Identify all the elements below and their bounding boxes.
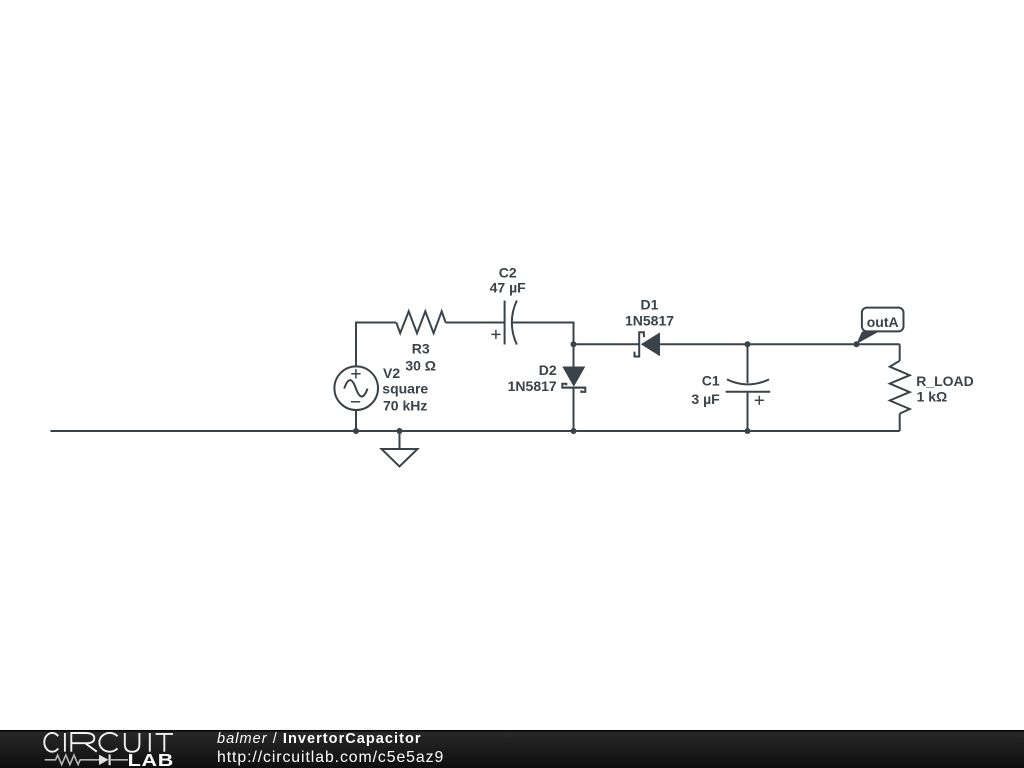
- node flag outA: [856, 308, 903, 345]
- junction: node outA attach point: [854, 341, 860, 347]
- svg-text:square: square: [382, 380, 428, 396]
- capacitor C1 plates: [726, 379, 771, 391]
- capacitor C2 plates: [505, 301, 517, 345]
- C2 plus sign: [491, 330, 500, 339]
- voltage source V2 circle: [334, 366, 378, 410]
- svg-text:1 kΩ: 1 kΩ: [917, 389, 948, 405]
- V2 minus sign: [351, 401, 360, 403]
- svg-text:47 µF: 47 µF: [490, 280, 527, 296]
- junction: C1 bottom on rail: [745, 428, 751, 434]
- footer title line: [217, 731, 422, 747]
- C1 plus sign: [755, 396, 764, 405]
- V2 sine wave: [344, 380, 367, 396]
- footer bar: [0, 730, 1024, 768]
- junction: D2 to ground rail: [571, 428, 577, 434]
- wire: R_LOAD top lead: [899, 344, 901, 361]
- wire: R_LOAD bottom lead: [899, 414, 901, 431]
- svg-text:V2: V2: [383, 365, 400, 381]
- svg-text:R3: R3: [412, 341, 430, 357]
- CircuitLab logo: [0, 723, 200, 768]
- ground symbol: [382, 431, 418, 467]
- svg-text:30 Ω: 30 Ω: [405, 357, 436, 373]
- svg-text:3 µF: 3 µF: [691, 391, 720, 407]
- wire: bottom ground rail: [51, 430, 900, 432]
- wire: D2 branch down from mid node: [573, 344, 575, 366]
- svg-text:outA: outA: [867, 314, 899, 330]
- wire: V2 bottom lead: [355, 410, 357, 431]
- junction: V2 to ground rail: [353, 428, 359, 434]
- wire: D1 to outA corner: [660, 343, 900, 345]
- diode D1 1N5817 (schottky, pointing left): [635, 332, 661, 356]
- V2 plus sign: [351, 369, 360, 378]
- wire: C1 top lead: [747, 344, 749, 383]
- footer url line: [217, 749, 444, 767]
- svg-text:C1: C1: [702, 372, 720, 388]
- wire: mid node to D1: [574, 343, 640, 345]
- resistor R_LOAD: [890, 361, 910, 414]
- svg-text:LAB: LAB: [128, 751, 174, 768]
- wire: R3 to C2: [446, 322, 505, 324]
- junction: C2/D1/D2 node: [571, 341, 577, 347]
- svg-text:1N5817: 1N5817: [508, 378, 557, 394]
- junction: ground stub on rail: [397, 428, 403, 434]
- svg-text:D1: D1: [641, 296, 659, 312]
- wire: D2 to ground rail: [573, 388, 575, 431]
- junction: C1 top node: [745, 341, 751, 347]
- svg-text:70 kHz: 70 kHz: [383, 397, 427, 413]
- wire: V2 top lead to R3: [356, 323, 396, 368]
- resistor R3: [396, 311, 445, 333]
- svg-text:C2: C2: [499, 264, 517, 280]
- svg-text:D2: D2: [539, 362, 557, 378]
- diode D2 1N5817 (schottky, pointing down): [562, 367, 585, 392]
- svg-text:R_LOAD: R_LOAD: [916, 373, 974, 389]
- svg-text:1N5817: 1N5817: [625, 312, 674, 328]
- wire: C2 to node, down to mid wire: [512, 323, 574, 345]
- wire: C1 bottom lead: [747, 392, 749, 431]
